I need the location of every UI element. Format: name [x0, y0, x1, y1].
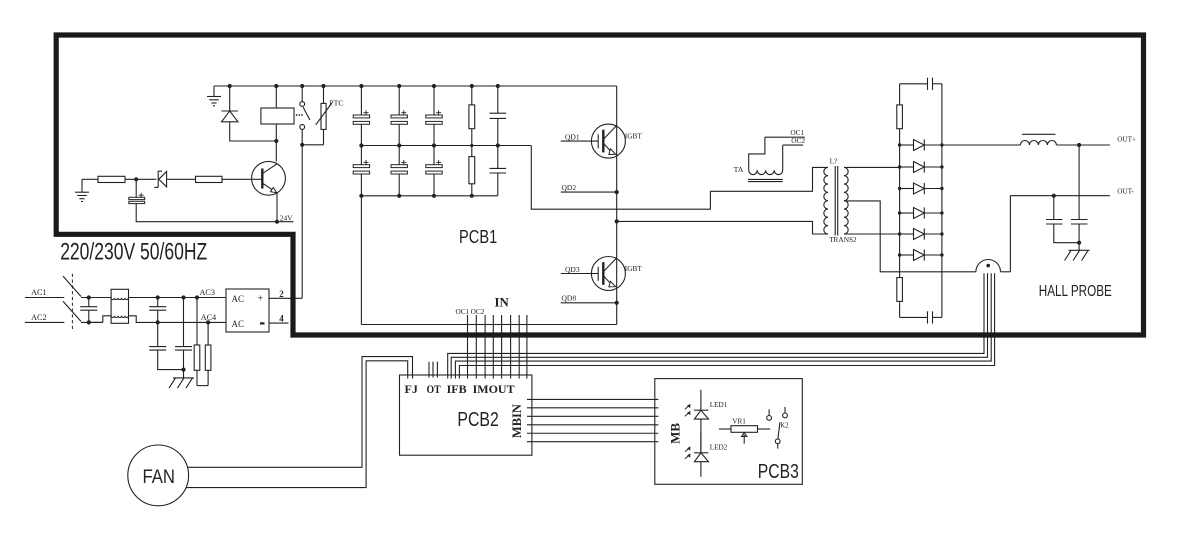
svg-text:MB: MB — [668, 423, 683, 444]
svg-text:IGBT: IGBT — [625, 264, 643, 273]
svg-text:4: 4 — [279, 314, 284, 324]
svg-text:IFB: IFB — [447, 382, 467, 396]
svg-text:OUT-: OUT- — [1117, 187, 1134, 195]
svg-text:AC2: AC2 — [31, 313, 46, 322]
svg-text:LED1: LED1 — [710, 401, 728, 409]
svg-text:OUT+: OUT+ — [1117, 136, 1136, 144]
svg-text:IMOUT: IMOUT — [473, 382, 515, 396]
svg-text:PTC: PTC — [329, 99, 343, 108]
svg-text:OC1: OC1 — [456, 307, 470, 316]
svg-text:MBIN: MBIN — [510, 404, 524, 438]
svg-text:24V: 24V — [280, 213, 294, 222]
svg-text:VR1: VR1 — [732, 418, 746, 426]
svg-text:IN: IN — [495, 295, 510, 309]
svg-text:OC2: OC2 — [791, 136, 805, 145]
svg-text:QD3: QD3 — [565, 265, 580, 274]
svg-text:2: 2 — [279, 289, 284, 299]
svg-text:LED2: LED2 — [710, 444, 728, 452]
svg-text:IGBT: IGBT — [625, 132, 643, 141]
svg-text:FAN: FAN — [143, 466, 176, 488]
svg-text:QD2: QD2 — [562, 183, 577, 192]
svg-text:AC3: AC3 — [200, 288, 215, 297]
svg-text:AC: AC — [232, 294, 245, 304]
svg-text:QD8: QD8 — [562, 294, 577, 303]
svg-text:OC2: OC2 — [471, 307, 485, 316]
svg-text:PCB1: PCB1 — [459, 226, 497, 247]
svg-text:PCB2: PCB2 — [457, 409, 498, 431]
svg-text:OT: OT — [427, 382, 441, 396]
svg-text:AC1: AC1 — [31, 288, 46, 297]
svg-text:QD1: QD1 — [565, 132, 580, 141]
svg-text:AC: AC — [232, 319, 245, 329]
svg-text:+: + — [258, 294, 264, 305]
svg-text:K2: K2 — [780, 422, 789, 429]
svg-text:PCB3: PCB3 — [758, 461, 799, 483]
svg-text:FJ: FJ — [405, 382, 418, 396]
svg-text:220/230V 50/60HZ: 220/230V 50/60HZ — [60, 238, 207, 265]
svg-text:AC4: AC4 — [201, 313, 216, 322]
svg-text:TRANS2: TRANS2 — [829, 235, 857, 244]
svg-text:HALL PROBE: HALL PROBE — [1039, 283, 1112, 300]
svg-text:TA: TA — [734, 165, 744, 174]
svg-text:L?: L? — [830, 157, 838, 166]
